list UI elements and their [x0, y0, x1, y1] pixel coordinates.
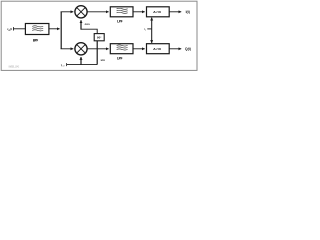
- filter LPF top box: [110, 7, 133, 17]
- svg-text:LPF: LPF: [117, 20, 122, 24]
- svg-text:rR(t: rR(t: [7, 27, 12, 32]
- wire bottom mixer to LPF: [87, 48, 109, 50]
- svg-text:BPF: BPF: [33, 38, 38, 42]
- wire sin arrow into bottom mixer: [80, 57, 82, 65]
- wire t_s stub: [147, 28, 151, 30]
- wire splitter vertical: [60, 12, 62, 49]
- wire BPF to splitter node: [49, 28, 60, 30]
- border frame (decorative): [1, 1, 197, 70]
- BPF wave symbols: [32, 26, 43, 31]
- svg-text:cos: cos: [85, 22, 91, 26]
- wire A/D top output: [169, 11, 181, 13]
- svg-text:Q(t): Q(t): [185, 47, 191, 51]
- filter BPF box: [25, 24, 49, 35]
- wire input tick: [13, 27, 15, 30]
- wire top mixer to LPF: [87, 11, 109, 13]
- wire LPF bottom to A/D: [133, 48, 145, 50]
- wire input to BPF: [14, 28, 26, 30]
- wire t_s down arrow into bottom A/D: [151, 29, 153, 43]
- mixer bottom (multiplier): [75, 43, 87, 55]
- wire A/D bottom output: [169, 48, 181, 50]
- svg-text:A / D: A / D: [153, 10, 161, 14]
- wire top branch to mixer: [61, 11, 74, 13]
- wire cos arrow into top mixer: [80, 20, 82, 29]
- mixer top (multiplier): [75, 6, 87, 18]
- wire LPF top to A/D: [133, 11, 145, 13]
- svg-text:fLO: fLO: [61, 63, 65, 68]
- svg-text:A / D: A / D: [153, 47, 161, 51]
- wire 90deg box to cos corner: [81, 29, 98, 33]
- wire LO up to 90deg box: [96, 41, 98, 65]
- svg-text:ts: ts: [144, 27, 147, 32]
- svg-text:UWB05_10-42: UWB05_10-42: [9, 66, 20, 69]
- filter LPF bottom box: [110, 44, 133, 54]
- converter A/D bottom box: [147, 44, 170, 54]
- wire LO horizontal: [67, 64, 98, 66]
- svg-text:sin: sin: [101, 58, 106, 62]
- wire LO tick: [66, 63, 68, 66]
- wire bottom branch to mixer: [61, 48, 74, 50]
- svg-text:90°: 90°: [97, 35, 102, 39]
- phase shifter 90 box: [94, 34, 104, 41]
- svg-text:I(t): I(t): [186, 10, 190, 14]
- converter A/D top box: [147, 7, 170, 17]
- wire t_s up arrow into top A/D: [151, 18, 153, 29]
- svg-text:LPF: LPF: [117, 56, 122, 60]
